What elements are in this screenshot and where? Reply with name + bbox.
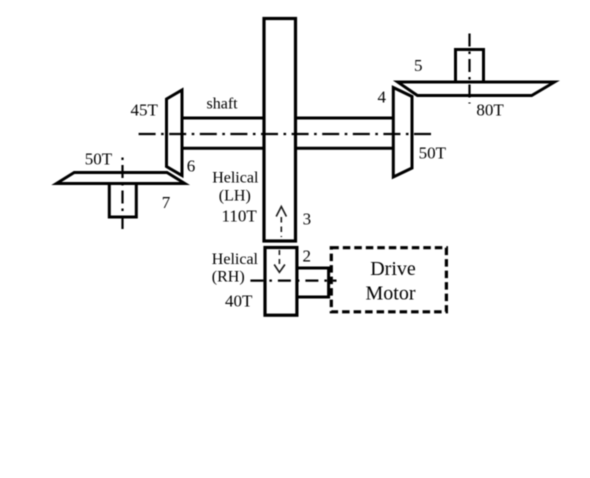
svg-text:110T: 110T (222, 206, 258, 225)
svg-text:Motor: Motor (366, 283, 416, 305)
svg-text:3: 3 (303, 209, 312, 228)
gear G7 (bevel 50T, horizontal disc) (56, 173, 185, 184)
shaft stub below gear G7 (109, 184, 136, 218)
centerline: main horizontal shaft axis (139, 133, 434, 135)
shaft stub above gear G5 (456, 50, 484, 83)
svg-text:80T: 80T (476, 100, 504, 119)
drive motor dashed box (331, 248, 446, 312)
wire: left shaft between gear 6 and gear 3 (182, 118, 266, 148)
gear G4 (50T, vertical disc on right shaft) (393, 88, 412, 178)
svg-text:(RH): (RH) (212, 268, 245, 285)
svg-text:5: 5 (414, 56, 423, 75)
centerline: motor shaft axis (250, 280, 336, 282)
wire: motor shaft between gear 2 and drive motor (296, 268, 329, 297)
svg-text:6: 6 (187, 157, 196, 176)
centerline: gear 5 vertical axis (468, 34, 470, 104)
wire: right shaft between gear 3 and gear 4 (294, 118, 394, 148)
svg-text:4: 4 (378, 88, 387, 107)
svg-text:2: 2 (303, 247, 312, 266)
svg-text:7: 7 (162, 193, 171, 212)
svg-text:45T: 45T (131, 101, 159, 120)
svg-text:Helical: Helical (212, 251, 259, 268)
svg-text:Drive: Drive (370, 258, 416, 280)
svg-text:Helical: Helical (212, 169, 259, 186)
gear G5 (bevel 80T, horizontal disc top right) (398, 82, 555, 96)
gear G6 (45T, vertical disc on left shaft) (167, 90, 183, 176)
svg-text:50T: 50T (85, 150, 113, 169)
svg-text:50T: 50T (419, 143, 447, 162)
arrow: upward rotation arrow inside gear 3 (276, 207, 286, 238)
centerline: gear 7 vertical axis (121, 158, 123, 232)
svg-text:shaft: shaft (207, 95, 239, 112)
svg-text:(LH): (LH) (219, 187, 251, 204)
svg-text:40T: 40T (225, 292, 253, 311)
gear G3 (helical LH 110T, central tall gear) (264, 19, 296, 242)
gear G2 (helical RH 40T) (265, 248, 297, 316)
arrow: downward rotation arrow inside gear 2 (274, 250, 285, 272)
